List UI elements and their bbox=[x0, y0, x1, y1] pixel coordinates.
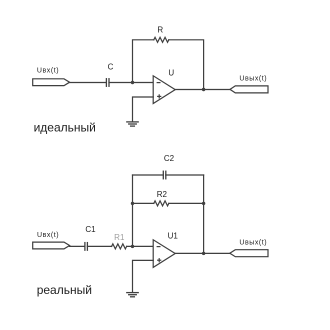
svg-text:C1: C1 bbox=[85, 225, 96, 234]
svg-text:идеальный: идеальный bbox=[34, 120, 96, 134]
svg-text:R1: R1 bbox=[114, 233, 125, 242]
svg-text:Uвх(t): Uвх(t) bbox=[37, 67, 59, 74]
svg-text:U: U bbox=[168, 69, 174, 78]
svg-text:Uвых(t): Uвых(t) bbox=[239, 239, 267, 246]
svg-text:Uвых(t): Uвых(t) bbox=[239, 76, 267, 83]
svg-text:R: R bbox=[157, 26, 163, 35]
svg-text:реальный: реальный bbox=[37, 283, 92, 297]
svg-text:U1: U1 bbox=[168, 231, 179, 240]
svg-text:Uвх(t): Uвх(t) bbox=[37, 232, 59, 239]
svg-text:C: C bbox=[108, 63, 114, 72]
svg-text:R2: R2 bbox=[157, 190, 168, 199]
svg-text:C2: C2 bbox=[164, 154, 175, 163]
